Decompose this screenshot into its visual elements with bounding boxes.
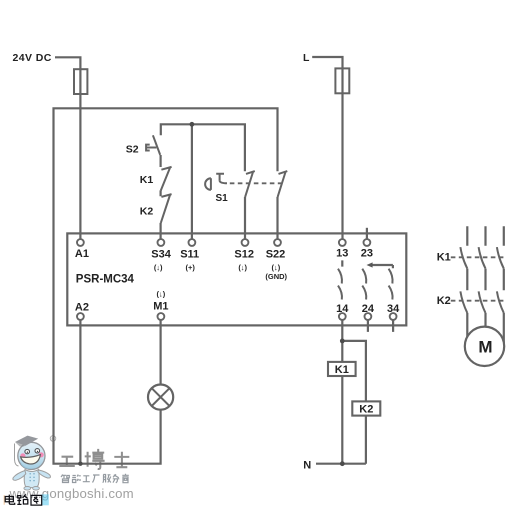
svg-text:S1: S1: [216, 193, 229, 204]
svg-text:K1: K1: [437, 252, 451, 264]
svg-text:S11: S11: [180, 248, 199, 260]
svg-text:N: N: [303, 460, 311, 472]
svg-text:S34: S34: [151, 248, 171, 260]
svg-text:PSR-MC34: PSR-MC34: [76, 274, 135, 286]
svg-text:24V DC: 24V DC: [13, 52, 52, 64]
svg-text:(↓): (↓): [154, 263, 163, 272]
svg-text:(GND): (GND): [265, 272, 287, 281]
svg-text:S12: S12: [234, 248, 254, 260]
svg-text:K1: K1: [140, 174, 154, 186]
svg-text:A2: A2: [75, 302, 89, 314]
svg-text:(↓): (↓): [272, 263, 281, 272]
svg-text:M: M: [478, 338, 492, 357]
svg-text:(+): (+): [186, 263, 196, 272]
svg-text:S22: S22: [266, 248, 286, 260]
svg-text:K2: K2: [140, 206, 154, 218]
svg-text:M1: M1: [153, 301, 168, 313]
svg-text:K2: K2: [437, 295, 451, 307]
svg-text:24: 24: [362, 303, 375, 315]
svg-text:34: 34: [387, 303, 400, 315]
svg-text:14: 14: [336, 303, 349, 315]
svg-text:L: L: [303, 52, 310, 64]
svg-text:(↓): (↓): [157, 290, 166, 299]
svg-text:K1: K1: [335, 364, 349, 376]
svg-text:13: 13: [336, 248, 348, 260]
svg-text:S2: S2: [126, 144, 139, 156]
svg-text:(↓): (↓): [238, 263, 247, 272]
svg-text:23: 23: [361, 248, 373, 260]
svg-text:K2: K2: [359, 403, 373, 415]
svg-text:A1: A1: [75, 248, 89, 260]
